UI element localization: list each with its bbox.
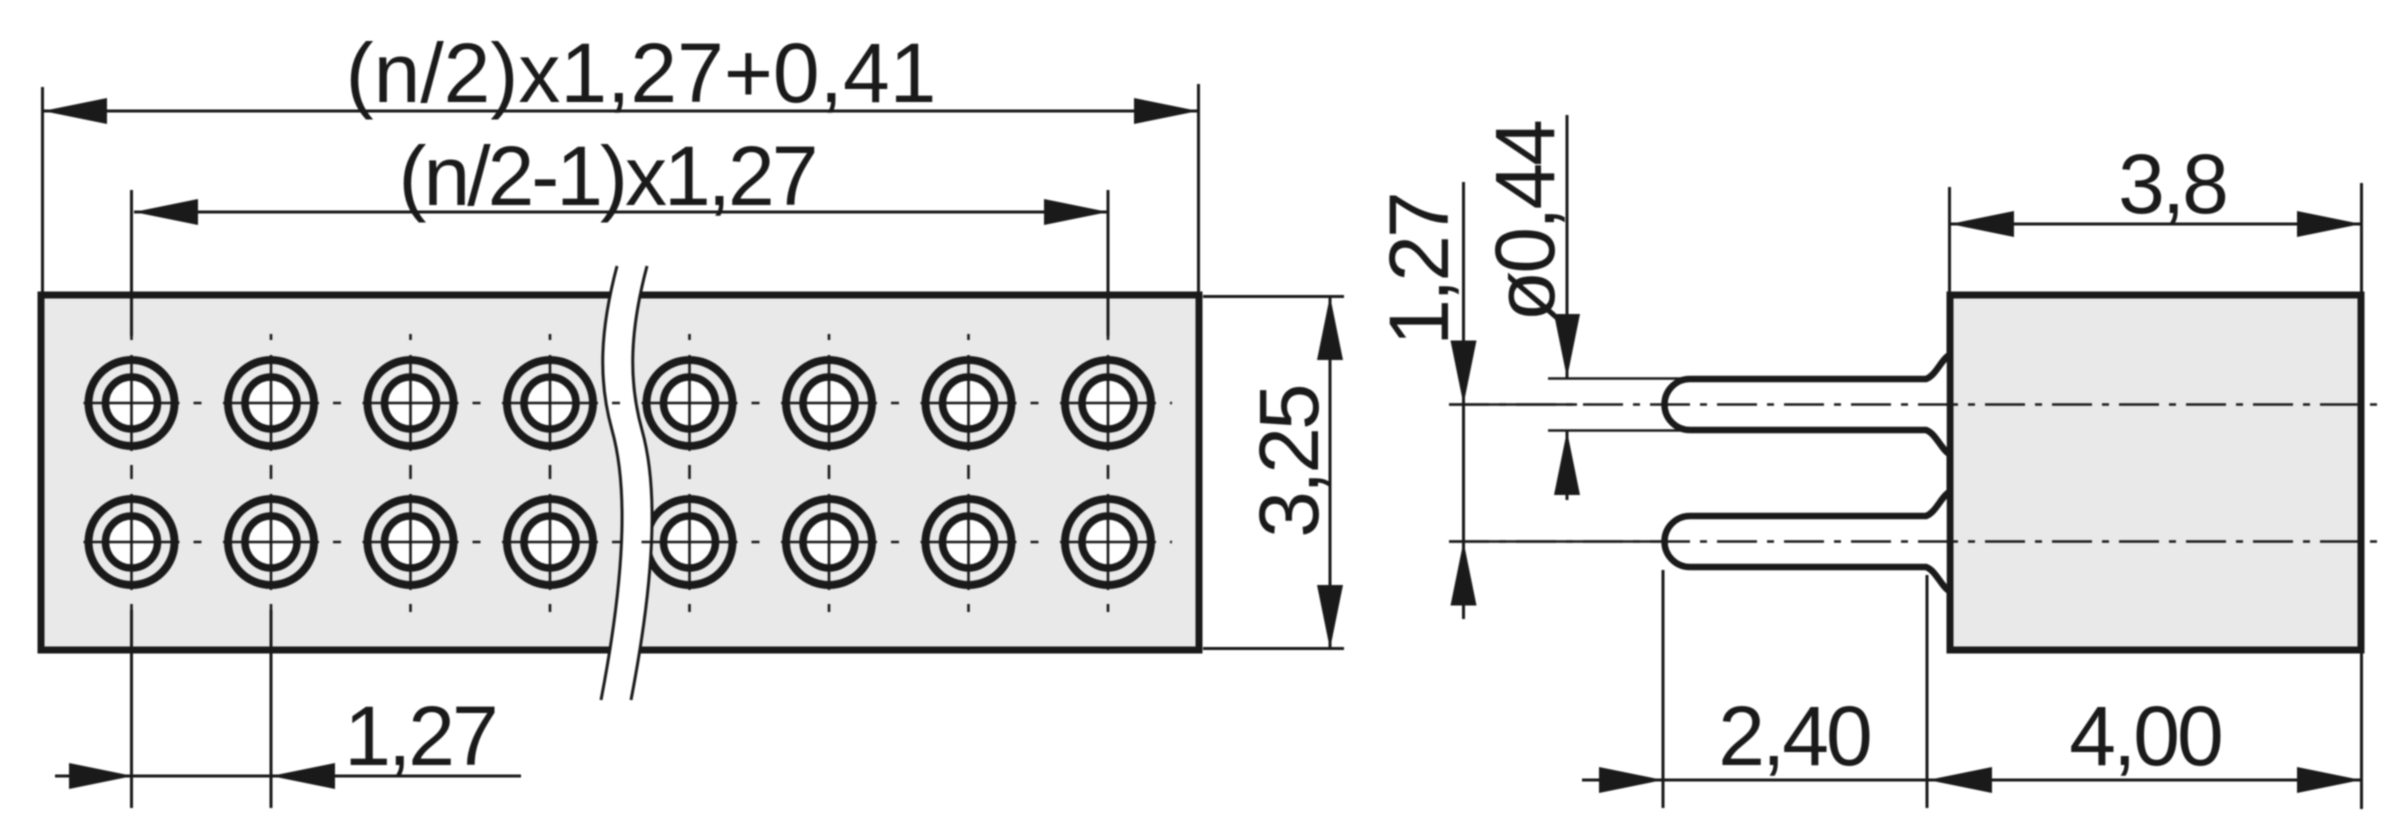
svg-text:(n/2-1)x1,27: (n/2-1)x1,27 — [399, 129, 816, 223]
svg-text:3,25: 3,25 — [1242, 386, 1336, 538]
svg-text:(n/2)x1,27+0,41: (n/2)x1,27+0,41 — [346, 26, 937, 120]
svg-text:1,27: 1,27 — [344, 689, 496, 783]
svg-text:3,8: 3,8 — [2118, 137, 2226, 231]
svg-text:2,40: 2,40 — [1718, 689, 1870, 783]
svg-text:4,00: 4,00 — [2069, 689, 2221, 783]
svg-text:ø0,44: ø0,44 — [1478, 121, 1572, 322]
svg-text:1,27: 1,27 — [1372, 194, 1466, 346]
